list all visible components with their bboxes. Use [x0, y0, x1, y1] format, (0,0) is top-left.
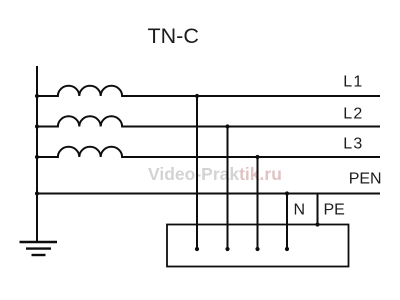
svg-text:L2: L2	[343, 106, 363, 123]
ground electrode symbol	[20, 242, 58, 255]
node: PEN-N tap	[285, 191, 289, 195]
node: bus-L3 junction	[35, 155, 39, 159]
winding W3 (phase L3 coil) and wire L3	[37, 147, 380, 157]
wire: drop from L2 to load	[227, 127, 229, 250]
svg-text:Video-Praktik.ru: Video-Praktik.ru	[148, 164, 282, 184]
svg-text:PEN: PEN	[349, 171, 382, 188]
wire: N drop from PEN to load	[286, 194, 288, 250]
node: L1 tap	[195, 94, 199, 98]
node: bus-PEN junction	[35, 191, 39, 195]
node: PE-box junction	[315, 222, 319, 226]
node: N load terminal	[285, 247, 289, 251]
svg-text:PE: PE	[324, 202, 345, 219]
load box	[167, 225, 349, 267]
node: L3 tap	[255, 155, 259, 159]
winding W1 (phase L1 coil) and wire L1	[37, 86, 380, 96]
node: L1 load terminal	[195, 247, 199, 251]
node: L3 load terminal	[255, 247, 259, 251]
svg-text:TN-C: TN-C	[148, 24, 199, 48]
node: bus-L1 junction	[35, 94, 39, 98]
wire: PE drop from PEN to load box	[317, 194, 319, 225]
node: L2 tap	[225, 124, 229, 128]
wire: left neutral bus	[36, 66, 38, 242]
wire: drop from L3 to load	[257, 157, 259, 249]
winding W2 (phase L2 coil) and wire L2	[37, 116, 380, 126]
svg-text:L1: L1	[343, 74, 363, 91]
node: L2 load terminal	[225, 247, 229, 251]
wire: drop from L1 to load	[196, 96, 198, 249]
svg-text:L3: L3	[343, 136, 363, 153]
node: bus-L2 junction	[35, 124, 39, 128]
wire PEN	[37, 193, 380, 195]
svg-text:N: N	[294, 202, 306, 219]
